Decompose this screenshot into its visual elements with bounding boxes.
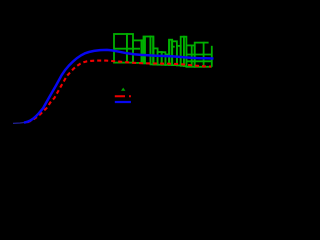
wire inner level line bbox=[114, 48, 140, 50]
wire wide mid line bbox=[186, 54, 211, 56]
box bin1 bbox=[114, 34, 127, 63]
box bin6 bbox=[150, 37, 153, 65]
box bin13 bbox=[177, 46, 181, 66]
box bin2 bbox=[127, 34, 133, 63]
wire bin5 inner edge bbox=[144, 37, 146, 64]
legend red dashed sample bbox=[115, 95, 131, 97]
wire bin16c top bbox=[204, 42, 209, 44]
green systematic error boxes bbox=[114, 34, 212, 67]
blue curve tail bbox=[13, 122, 25, 123]
box bin9 bbox=[162, 52, 166, 65]
box bin16b bbox=[195, 43, 204, 67]
wire bin16c right edge bbox=[211, 46, 213, 67]
box bin14 bbox=[181, 37, 184, 66]
box bin8 bbox=[158, 52, 162, 65]
legend blue line sample bbox=[115, 101, 131, 103]
box bin7 bbox=[153, 48, 157, 64]
wire bin16a inner divider bbox=[191, 45, 193, 66]
blue solid curve bbox=[24, 50, 214, 123]
box bin10 bbox=[165, 55, 169, 65]
wire bin16c bottom bbox=[204, 66, 212, 68]
red dashed curve bbox=[27, 61, 211, 123]
wire bin6 thick right edge bbox=[152, 37, 154, 65]
box bin4 bbox=[142, 40, 144, 63]
wire bin11 thick left edge bbox=[168, 40, 170, 65]
box bin3 bbox=[133, 40, 142, 63]
box bin11 bbox=[169, 40, 172, 65]
wire bin12 inner top bbox=[172, 46, 174, 48]
box bin5 bbox=[144, 37, 151, 64]
box bin16a bbox=[186, 45, 194, 66]
box bin15 bbox=[184, 37, 187, 66]
box bin12 bbox=[172, 41, 177, 65]
legend marker triangle bbox=[121, 88, 125, 91]
wire wide lower line bbox=[186, 60, 211, 62]
